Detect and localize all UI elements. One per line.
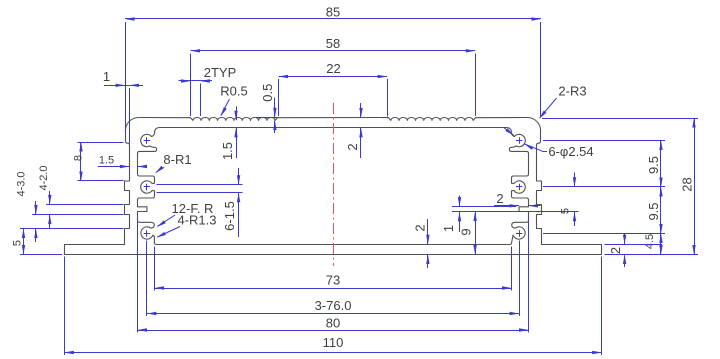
dim 1 rib lines: [459, 196, 461, 207]
dim 1 rib ext bot: [452, 211, 579, 213]
label 12-F.R leader: [158, 215, 176, 226]
dim 2 plate-mid lines: [427, 219, 429, 244]
svg-text:8: 8: [73, 155, 85, 161]
dim 4-2.0 ext bot: [32, 214, 124, 216]
boss center cross 4: [516, 140, 522, 142]
dim 110 ext: [64, 257, 66, 356]
dim 4-2.0 lines: [49, 191, 51, 204]
dim 0.5 ext: [256, 117, 278, 119]
enclosure outer profile: [65, 117, 602, 254]
boss center cross 1: [144, 140, 150, 142]
dim 4-3.0 ext bot: [20, 228, 124, 230]
dim 85 ext left: [125, 22, 127, 130]
dim 4.5 line: [660, 234, 662, 255]
red centerline: [333, 103, 335, 266]
svg-text:4-R1.3: 4-R1.3: [177, 213, 216, 228]
dim 73 line: [155, 288, 512, 290]
dim 58 line: [191, 50, 476, 52]
ext line y233.5: [543, 233, 665, 235]
svg-text:1: 1: [103, 69, 110, 84]
svg-text:2: 2: [496, 191, 503, 206]
dim 5L ext bot: [20, 254, 62, 256]
ext line y140.5: [543, 140, 665, 142]
svg-text:9.5: 9.5: [646, 156, 661, 174]
dim 22 ext left: [278, 79, 280, 116]
dim 2TYP lines: [179, 80, 191, 82]
dim 6-1.5 lines: [238, 168, 240, 185]
dim 8 ext top: [78, 142, 124, 144]
dim 80 line: [138, 330, 529, 332]
label 4-R1.3 leader: [157, 227, 180, 238]
svg-text:2: 2: [608, 247, 623, 254]
label 8-R1 leader: [156, 167, 164, 173]
svg-text:2: 2: [413, 224, 428, 231]
boss center cross 5: [516, 186, 522, 188]
dim 110 line: [64, 352, 601, 354]
svg-text:6-φ2.54: 6-φ2.54: [548, 144, 593, 159]
svg-text:28: 28: [680, 177, 695, 191]
dim 8 line: [80, 142, 82, 181]
svg-text:4-2.0: 4-2.0: [38, 165, 50, 190]
dim 1 rib ext top: [452, 206, 516, 208]
ext line y244.5 right: [605, 244, 663, 246]
svg-text:6-1.5: 6-1.5: [222, 201, 237, 231]
dim 6-1.5 ext bot: [157, 192, 243, 194]
boss center cross 2: [144, 186, 150, 188]
svg-text:2TYP: 2TYP: [204, 65, 237, 80]
inner cavity outline with screw bosses: [138, 128, 529, 245]
svg-text:85: 85: [326, 4, 340, 19]
svg-text:8-R1: 8-R1: [163, 152, 191, 167]
dim 9 line: [475, 212, 477, 255]
dim 4-2.0 ext top: [46, 204, 124, 206]
svg-text:110: 110: [323, 335, 344, 350]
boss center cross 6: [516, 233, 522, 235]
dim 5L line: [23, 229, 25, 255]
dim 22 ext right: [387, 79, 389, 117]
dim 85 ext right: [540, 22, 542, 116]
ext line y187: [543, 186, 665, 188]
dim 3-76.0 line: [147, 313, 519, 315]
dim 2TYP ext: [200, 84, 202, 117]
label 6-phi2.54 leader: [504, 128, 514, 136]
dim 1 lines: [104, 85, 125, 87]
dim 1 ext: [129, 88, 131, 144]
dim 9.5b line: [660, 187, 662, 234]
boss center cross 3: [144, 233, 150, 235]
dim 73 ext: [154, 247, 156, 291]
dim 80 ext: [137, 218, 139, 333]
svg-text:4.5: 4.5: [644, 234, 656, 249]
label 2-R3 leader: [540, 98, 557, 118]
dim 0.5 lines: [274, 98, 276, 118]
dim 85 line: [125, 18, 541, 20]
dim 2 plateR lines: [624, 234, 626, 245]
svg-text:1: 1: [441, 225, 456, 232]
svg-text:0.5: 0.5: [260, 84, 275, 102]
dim 5R lines: [574, 173, 576, 187]
svg-text:58: 58: [326, 36, 340, 51]
label R0.5 leader: [221, 99, 230, 116]
ext line y118: [542, 118, 698, 120]
dim 28 line: [694, 118, 696, 255]
svg-text:5: 5: [12, 240, 24, 246]
svg-text:9: 9: [459, 228, 474, 235]
dim 58 ext left: [190, 54, 192, 117]
svg-text:R0.5: R0.5: [220, 84, 247, 99]
dim 22 line: [279, 76, 388, 78]
svg-text:5: 5: [560, 208, 572, 214]
svg-text:3-76.0: 3-76.0: [315, 298, 352, 313]
ext line y254.3 right: [605, 254, 699, 256]
svg-text:2-R3: 2-R3: [558, 84, 586, 99]
svg-text:1.5: 1.5: [220, 142, 235, 160]
svg-text:73: 73: [326, 273, 340, 288]
dim 1.5 top lines: [236, 107, 238, 121]
dim 2 rib lines: [494, 205, 519, 207]
dim 3-76.0 ext: [146, 241, 148, 317]
dim 4-3.0 lines: [35, 201, 37, 214]
dim 9.5a line: [660, 141, 662, 188]
dim 1.5 wall lines: [98, 166, 129, 168]
svg-text:9.5: 9.5: [646, 202, 661, 220]
svg-text:4-3.0: 4-3.0: [16, 171, 28, 196]
svg-text:2: 2: [345, 143, 360, 150]
svg-text:80: 80: [326, 316, 340, 331]
dim 6-1.5 ext top: [157, 184, 243, 186]
svg-text:22: 22: [326, 61, 340, 76]
dim 8 ext bot: [78, 180, 124, 182]
dim 58 ext right: [475, 54, 477, 117]
dim 2 mid lines: [360, 103, 362, 117]
svg-text:1.5: 1.5: [99, 155, 114, 167]
